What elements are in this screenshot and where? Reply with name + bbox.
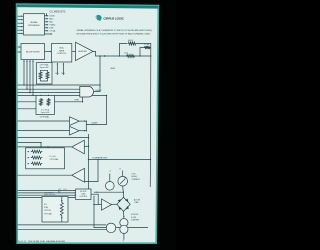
comparator A triangle <box>70 117 80 126</box>
Q2 top stub <box>122 171 124 177</box>
bus wire line3 <box>18 92 80 94</box>
net label COMPARATORS <box>92 157 108 160</box>
Q4 bottom stub <box>123 233 125 239</box>
svg-text:CS_WIDE BITS: CS_WIDE BITS <box>50 12 66 14</box>
wire amp to bridge <box>112 203 117 205</box>
serial output wire last <box>45 33 53 35</box>
svg-text:OPTION: OPTION <box>44 210 51 212</box>
svg-text:BQ2: BQ2 <box>49 19 53 21</box>
svg-text:HIGH C: HIGH C <box>95 90 102 92</box>
svg-text:CONTROL: CONTROL <box>57 53 68 55</box>
net label HIGH C <box>95 90 102 92</box>
svg-text:SERIAL INTERFACE IS A COMPANIO: SERIAL INTERFACE IS A COMPANION TO WIDTH… <box>77 29 153 32</box>
svg-text:R gain=100: R gain=100 <box>40 67 49 69</box>
serial input wire 2 <box>18 19 24 21</box>
net label Q1 <box>110 170 112 172</box>
net label LOAD3 <box>58 192 61 194</box>
net label CS_WIDE BITS <box>50 12 66 14</box>
diode bridge D1-D4 <box>117 197 130 211</box>
bottom bus wire 1 <box>18 224 107 226</box>
crystal option box <box>42 197 68 223</box>
ALC output wire <box>91 194 98 204</box>
svg-text:HI2: HI2 <box>58 192 61 194</box>
svg-text:USER OPTION: USER OPTION <box>44 195 56 197</box>
serial input wire 5 <box>18 29 24 31</box>
comparator B output wire <box>79 130 86 132</box>
low current label <box>132 174 140 181</box>
page border stripe <box>17 4 159 243</box>
AND gate G1 <box>80 86 94 97</box>
wire amp input <box>93 204 101 205</box>
wire sub-rate to buffer <box>72 50 76 52</box>
junction buffer output node <box>99 55 100 56</box>
multiplexer input wire B <box>18 51 21 52</box>
ALC input wire 4 <box>18 197 76 198</box>
mirror circle Q4a <box>120 219 128 227</box>
net label LOAD1 <box>58 189 61 191</box>
svg-text:R = 500: R = 500 <box>50 156 56 158</box>
svg-text:PLL: PLL <box>44 204 47 206</box>
right bus vertical wire <box>149 56 152 187</box>
resistor R5 <box>46 71 49 79</box>
multiplexer box <box>21 44 45 60</box>
net label LASB <box>110 67 115 70</box>
resistor R4 <box>39 71 42 79</box>
amp T2 input wire <box>85 159 99 182</box>
wire into resistor box top <box>47 146 49 149</box>
net label CLAMP <box>91 122 98 125</box>
optional gain resistor box 2 <box>36 95 55 114</box>
multiplexer bottom wire 3 <box>29 60 31 93</box>
Q1 top stub <box>109 174 111 182</box>
wire R4 R5 top <box>41 69 48 72</box>
svg-text:CURRENT: CURRENT <box>131 219 139 221</box>
bus wire line7 <box>18 137 89 139</box>
bridge bottom wire <box>123 211 125 218</box>
amp T1 output wire <box>18 146 72 147</box>
svg-text:CURRENT: CURRENT <box>132 179 140 181</box>
resistor R6 <box>40 98 43 106</box>
resistor R9 <box>28 156 43 159</box>
svg-text:BITS AND FREQUENCY IS LATCHED: BITS AND FREQUENCY IS LATCHED RIGHT SIDE… <box>77 33 152 36</box>
svg-text:OPTIONAL: OPTIONAL <box>40 116 49 119</box>
serial output wire BQ2 <box>45 18 54 21</box>
svg-text:BQI: BQI <box>49 22 53 24</box>
net label SCL <box>55 73 59 75</box>
junction main to bus <box>150 55 151 56</box>
gate output wire <box>94 56 100 92</box>
svg-text:RATE: RATE <box>59 49 65 52</box>
net label MCL <box>62 73 66 75</box>
gate bottom stub wire <box>82 97 83 102</box>
bus wire line8 <box>18 142 42 148</box>
comparator B triangle <box>70 126 80 135</box>
svg-text:SERIAL: SERIAL <box>30 21 38 24</box>
comparator A output wire <box>79 120 86 122</box>
multiplexer input wire A <box>18 46 21 47</box>
resistor R7 <box>47 98 50 106</box>
wire SCL rising <box>57 63 58 75</box>
bias wire horizontal <box>94 192 124 193</box>
resistor R8 <box>28 150 43 153</box>
Q2 to bridge wire <box>122 186 125 197</box>
junction node R-network mid <box>139 55 140 56</box>
ALC input wire 2 <box>18 192 76 193</box>
svg-text:XTAL: XTAL <box>44 206 48 209</box>
comparator input wire 1 <box>18 120 70 122</box>
logo wordmark CIRRUS LOGIC <box>103 17 124 21</box>
bus wire line5 <box>18 101 83 103</box>
net label VS <box>123 241 125 243</box>
serial input wire 4 <box>18 26 24 28</box>
right-edge bus wire down <box>150 47 152 49</box>
datasheet page <box>17 4 159 243</box>
junction line7 bus <box>88 137 89 138</box>
active load control box <box>76 189 91 200</box>
bottom bus wire 2 <box>18 229 107 231</box>
amp T1 triangle left-pointing <box>72 140 85 154</box>
bus wire line6 <box>18 108 36 110</box>
multiplexer bottom wire 2 <box>26 60 28 90</box>
resistor R3 15k <box>144 44 151 49</box>
multiplexer bottom wire 1 <box>23 60 25 86</box>
feedback loop wire top <box>120 44 128 57</box>
svg-text:CIRRUS LOGIC: CIRRUS LOGIC <box>103 17 124 21</box>
net label RWB <box>75 100 80 102</box>
svg-text:OPTIONAL: OPTIONAL <box>50 158 59 161</box>
svg-text:U/UM: U/UM <box>49 16 54 18</box>
optional gain resistor box 1 <box>37 63 53 85</box>
header description text line 1 <box>77 29 153 32</box>
bus wire line4 <box>18 94 107 96</box>
parallel loop wire <box>140 48 145 57</box>
ALC input wire 3 <box>18 195 76 196</box>
svg-text:LWS: LWS <box>49 28 54 30</box>
wire MCL rising <box>63 63 64 75</box>
svg-text:R gain=100: R gain=100 <box>41 112 50 114</box>
main output wire <box>93 51 151 57</box>
Cirrus Logic logo <box>95 15 101 21</box>
sub-rate control box <box>52 44 72 63</box>
source current label <box>131 214 139 221</box>
svg-text:LOW JITTER: LOW JITTER <box>44 192 54 194</box>
amp T1 input wire <box>84 146 89 147</box>
svg-text:CLAMP: CLAMP <box>91 122 98 125</box>
svg-text:400 Ω: 400 Ω <box>128 40 134 42</box>
transistor circle Q1 <box>106 182 115 191</box>
multiplexer bottom wire 4 <box>32 60 34 96</box>
ALC input wire 1 <box>18 190 76 191</box>
junction box2 top b <box>48 95 49 96</box>
resistor R2 400 <box>128 40 137 45</box>
resistor R1 1k <box>124 52 135 57</box>
svg-text:MULTIPLEXER: MULTIPLEXER <box>26 51 40 53</box>
svg-text:R = 500 Ω: R = 500 Ω <box>41 109 50 111</box>
svg-text:LO1: LO1 <box>58 189 61 191</box>
wire R11 bottom <box>61 217 63 222</box>
serial interface box U1 <box>24 14 45 35</box>
net label Q2 <box>120 168 122 170</box>
serial input wire 6 <box>18 33 24 35</box>
serial output wire TWBQ <box>45 24 56 27</box>
amp T2 triangle left-pointing <box>72 168 85 182</box>
clamp bracket wire <box>86 120 87 131</box>
svg-text:LOAD: LOAD <box>134 201 139 204</box>
svg-text:TWBQ: TWBQ <box>49 25 55 27</box>
output amp triangle <box>102 199 112 210</box>
optional label below box2 <box>40 116 49 119</box>
active load label <box>134 198 141 203</box>
wire R11 top <box>61 197 63 202</box>
bus wire line1 <box>18 84 100 86</box>
crystal box label <box>44 192 56 196</box>
junction line1 gate-vert <box>99 84 100 85</box>
bus wire line2 <box>18 88 80 90</box>
mirror circle Q4b <box>120 225 128 233</box>
wire R4 R5 bottom <box>41 80 48 81</box>
svg-text:SUB-: SUB- <box>59 48 64 50</box>
black scan background <box>0 0 176 250</box>
svg-text:COMPARATORS: COMPARATORS <box>92 157 108 160</box>
wire CS_WIDE BITS stub <box>46 13 48 15</box>
comparator input wire 2 <box>18 130 70 132</box>
svg-text:DS-41 F2 · SEE DETAIL DUAL DIA: DS-41 F2 · SEE DETAIL DUAL DIAGRAM A SHO… <box>18 240 66 243</box>
footer document number <box>18 240 66 243</box>
top dark header band <box>17 5 159 9</box>
serial output wire BQI <box>45 21 54 24</box>
svg-text:1 kΩ: 1 kΩ <box>124 52 129 54</box>
wire multiplexer to sub-rate <box>45 51 52 52</box>
serial output wire LOCAL <box>45 30 57 33</box>
resistor R11 <box>60 200 63 218</box>
svg-text:LOAD: LOAD <box>81 193 86 196</box>
svg-text:LO2: LO2 <box>64 189 67 191</box>
svg-text:15 kΩ: 15 kΩ <box>144 44 150 46</box>
svg-text:BUFFER: BUFFER <box>78 51 87 53</box>
buffer amplifier triangle <box>76 42 94 60</box>
resistor R10 <box>28 162 43 165</box>
header description text line 2 <box>77 33 152 36</box>
serial input wire 3 <box>18 22 24 24</box>
junction node R-network left <box>119 55 120 56</box>
svg-text:LOCAL: LOCAL <box>49 30 56 33</box>
comparators output wire <box>88 159 151 160</box>
svg-text:LASB: LASB <box>110 67 115 70</box>
vertical bus wire mid <box>88 134 90 189</box>
serial output wire LWS <box>45 27 55 30</box>
svg-text:CONTROL: CONTROL <box>79 196 87 198</box>
feedback loop wire right <box>137 44 151 57</box>
output stage enclosure wire <box>94 196 148 228</box>
svg-text:INTERFACE: INTERFACE <box>28 24 40 27</box>
mirror circle Q3 <box>106 223 116 233</box>
serial input wire 1 <box>18 15 24 17</box>
amp T2 output wire <box>18 174 72 176</box>
clamp tap wire <box>86 95 107 125</box>
current source circle Q2 <box>118 176 128 186</box>
net label LOAD2 <box>64 189 67 191</box>
serial output wire U/UM <box>45 15 55 18</box>
junction box2 top a <box>40 95 41 96</box>
feedback resistor box <box>26 148 65 169</box>
